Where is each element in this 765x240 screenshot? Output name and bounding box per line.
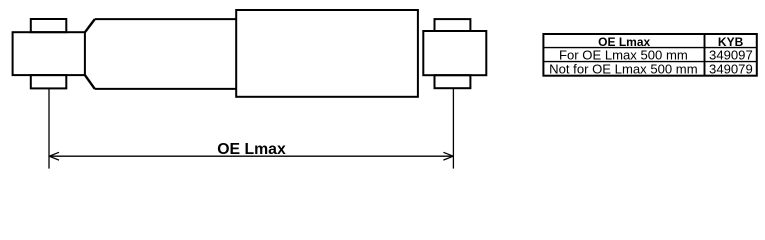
dust cover chamfer bottom [85,75,95,89]
left mount bottom pin [31,75,67,88]
dust cover bottom edge [95,88,237,90]
table outer border [543,34,756,76]
dimension arrowhead right [443,152,453,160]
table row divider 2 [543,61,756,63]
right mount bottom pin [435,75,471,88]
dimension extension line right [452,88,454,168]
dust cover top edge [95,18,237,20]
svg-text:OE Lmax: OE Lmax [217,141,286,158]
right mount top pin [435,19,471,31]
left eye mount bushing body [13,32,85,75]
dimension line OE Lmax [49,155,453,157]
svg-text:349079: 349079 [709,62,753,77]
dimension extension line left [48,89,50,169]
table column divider [704,34,706,76]
svg-text:349097: 349097 [709,48,753,63]
dimension arrowhead left [49,152,59,160]
outer reservoir cylinder [236,10,418,97]
svg-text:Not for OE Lmax 500 mm: Not for OE Lmax 500 mm [549,61,698,76]
dust cover chamfer top [85,19,95,32]
svg-text:For OE Lmax 500 mm: For OE Lmax 500 mm [559,47,688,62]
table row divider 1 [543,47,756,49]
left mount top pin [31,19,67,32]
right eye mount bushing body [423,31,486,75]
